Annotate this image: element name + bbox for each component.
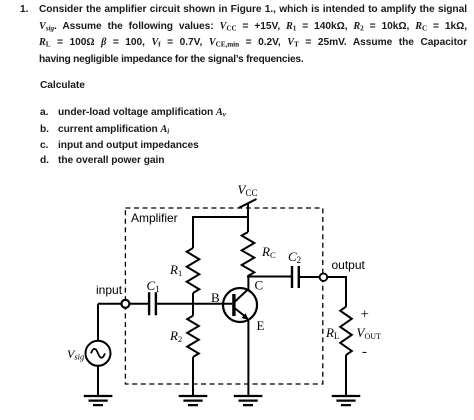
capacitor C2 bbox=[292, 266, 299, 288]
resistor RL bbox=[340, 307, 352, 355]
svg-text:output: output bbox=[332, 258, 366, 272]
wire Vsig top lead bbox=[97, 304, 99, 341]
svg-text:E: E bbox=[257, 318, 265, 333]
wire base rail (input circle to C1) bbox=[129, 303, 149, 305]
wire input left segment bbox=[98, 303, 122, 305]
wire Vsig bottom lead bbox=[97, 366, 99, 396]
transistor emitter arrowhead bbox=[242, 313, 249, 320]
transistor collector diagonal bbox=[235, 289, 248, 302]
svg-text:input: input bbox=[96, 283, 123, 297]
svg-text:VOUT: VOUT bbox=[357, 325, 382, 341]
transistor base bar bbox=[232, 294, 235, 316]
wire R2 top lead bbox=[192, 304, 194, 316]
wire collector vertical bbox=[247, 276, 249, 291]
wire Vcc branch to R1 bbox=[193, 216, 248, 218]
svg-text:C: C bbox=[255, 278, 264, 293]
transistor emitter diagonal bbox=[235, 309, 246, 318]
transistor Q1 circle bbox=[223, 288, 257, 322]
wire R1 bottom lead bbox=[192, 293, 194, 304]
Vcc supply lead bbox=[247, 203, 249, 233]
svg-text:RC: RC bbox=[261, 244, 276, 260]
svg-text:Amplifier: Amplifier bbox=[131, 211, 178, 225]
ground (emitter) bbox=[234, 396, 263, 405]
wire emitter vertical bbox=[247, 319, 249, 397]
wire R1 top lead bbox=[192, 216, 194, 248]
wire output to RL bbox=[327, 277, 346, 307]
wire R2 bottom lead bbox=[192, 357, 194, 396]
svg-text:C1: C1 bbox=[147, 278, 160, 294]
svg-text:B: B bbox=[211, 290, 220, 305]
node input terminal circle bbox=[121, 300, 129, 308]
svg-text:+: + bbox=[361, 307, 369, 323]
ground (RL) bbox=[332, 396, 361, 405]
Vcc supply slash bbox=[239, 199, 257, 208]
svg-text:R1: R1 bbox=[169, 262, 182, 278]
ground (R2) bbox=[179, 396, 208, 405]
svg-text:VCC: VCC bbox=[238, 182, 258, 198]
problem text bbox=[20, 4, 28, 15]
ground (Vsig) bbox=[84, 396, 113, 405]
wire C2 to output bbox=[299, 276, 320, 278]
svg-text:-: - bbox=[362, 344, 367, 360]
svg-text:R2: R2 bbox=[169, 328, 182, 344]
wire collector node to C2 bbox=[247, 276, 292, 278]
wire C1 to base bbox=[156, 303, 232, 305]
dashed amplifier box bbox=[125, 208, 322, 384]
capacitor C1 bbox=[149, 292, 156, 315]
node output terminal circle bbox=[320, 273, 328, 281]
svg-text:C2: C2 bbox=[288, 249, 301, 265]
source Vsig bbox=[86, 341, 111, 366]
resistor RC bbox=[242, 232, 255, 276]
svg-text:Vsig: Vsig bbox=[67, 347, 84, 362]
resistor R2 bbox=[187, 316, 199, 357]
resistor R1 bbox=[187, 248, 200, 293]
wire RL bottom lead bbox=[345, 355, 347, 396]
svg-text:RL: RL bbox=[325, 325, 339, 341]
